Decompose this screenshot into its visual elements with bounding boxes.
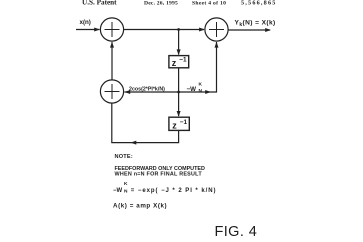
svg-text:U.S. Patent: U.S. Patent: [82, 0, 117, 7]
arrowhead: up into adder U2 from below: [215, 42, 219, 48]
svg-text:x(n): x(n): [80, 19, 91, 26]
svg-text:2cos(2*PI*k/N): 2cos(2*PI*k/N): [129, 86, 165, 92]
arrowhead: left into adder U3: [124, 90, 130, 94]
delay Z1 box: [169, 56, 189, 68]
junction node A: [177, 28, 180, 31]
svg-text:N: N: [124, 188, 128, 194]
arrowhead: right on wire toward U2 corner: [205, 90, 211, 94]
wire: Z2 output down, left, and up into adder U3: [112, 103, 179, 142]
svg-text:K: K: [199, 82, 203, 88]
arrowhead: into adder U2 from left: [199, 28, 205, 32]
svg-text:−1: −1: [180, 119, 188, 126]
svg-text:z: z: [172, 121, 177, 131]
wire: branch from node A down into Z1: [178, 30, 180, 55]
arrowhead: down into Z1: [177, 49, 181, 55]
svg-text:−W: −W: [113, 188, 123, 194]
arrowhead: output arrow end: [265, 28, 271, 32]
wire: Z1 output down through node B into Z2: [178, 69, 180, 117]
adder U1 (top-left summing node): [100, 18, 123, 41]
wire: node B left into adder U3: [124, 91, 178, 93]
svg-text:WHEN n=N FOR FINAL RESULT: WHEN n=N FOR FINAL RESULT: [115, 172, 203, 178]
svg-text:−W: −W: [187, 86, 197, 93]
svg-text:N: N: [199, 88, 203, 94]
svg-text:FIG. 4: FIG. 4: [215, 224, 258, 240]
arrowhead: left on bottom feedback wire: [131, 141, 137, 145]
svg-text:5,566,865: 5,566,865: [241, 0, 277, 7]
wire: feedback from adder U3 up into adder U1: [111, 42, 113, 80]
svg-text:z: z: [172, 58, 177, 68]
svg-text:A(k) = amp X(k): A(k) = amp X(k): [113, 202, 167, 209]
junction node B: [177, 91, 180, 94]
svg-text:Dec. 26, 1995: Dec. 26, 1995: [144, 1, 178, 7]
adder U3 (lower-left summing node): [100, 80, 123, 103]
adder U2 (top-right summing node): [205, 18, 228, 41]
wire: adder U1 to adder U2: [124, 29, 204, 31]
arrowhead: up into adder U1 from below: [110, 42, 114, 48]
svg-text:Sheet 4 of 10: Sheet 4 of 10: [192, 1, 226, 7]
svg-text:= −exp( −J * 2 PI * k/N): = −exp( −J * 2 PI * k/N): [131, 188, 217, 194]
arrowhead: down into Z2: [177, 111, 181, 117]
wire: adder U2 output: [228, 29, 270, 31]
svg-text:−1: −1: [179, 56, 187, 63]
wire: x(n) input: [76, 29, 100, 31]
svg-text:K: K: [124, 181, 128, 187]
wire: node B right to corner and up into adder U2: [179, 42, 217, 92]
arrowhead: into adder U1 from left: [94, 28, 100, 32]
svg-text:NOTE:: NOTE:: [115, 154, 133, 160]
delay Z2 box: [169, 117, 189, 130]
